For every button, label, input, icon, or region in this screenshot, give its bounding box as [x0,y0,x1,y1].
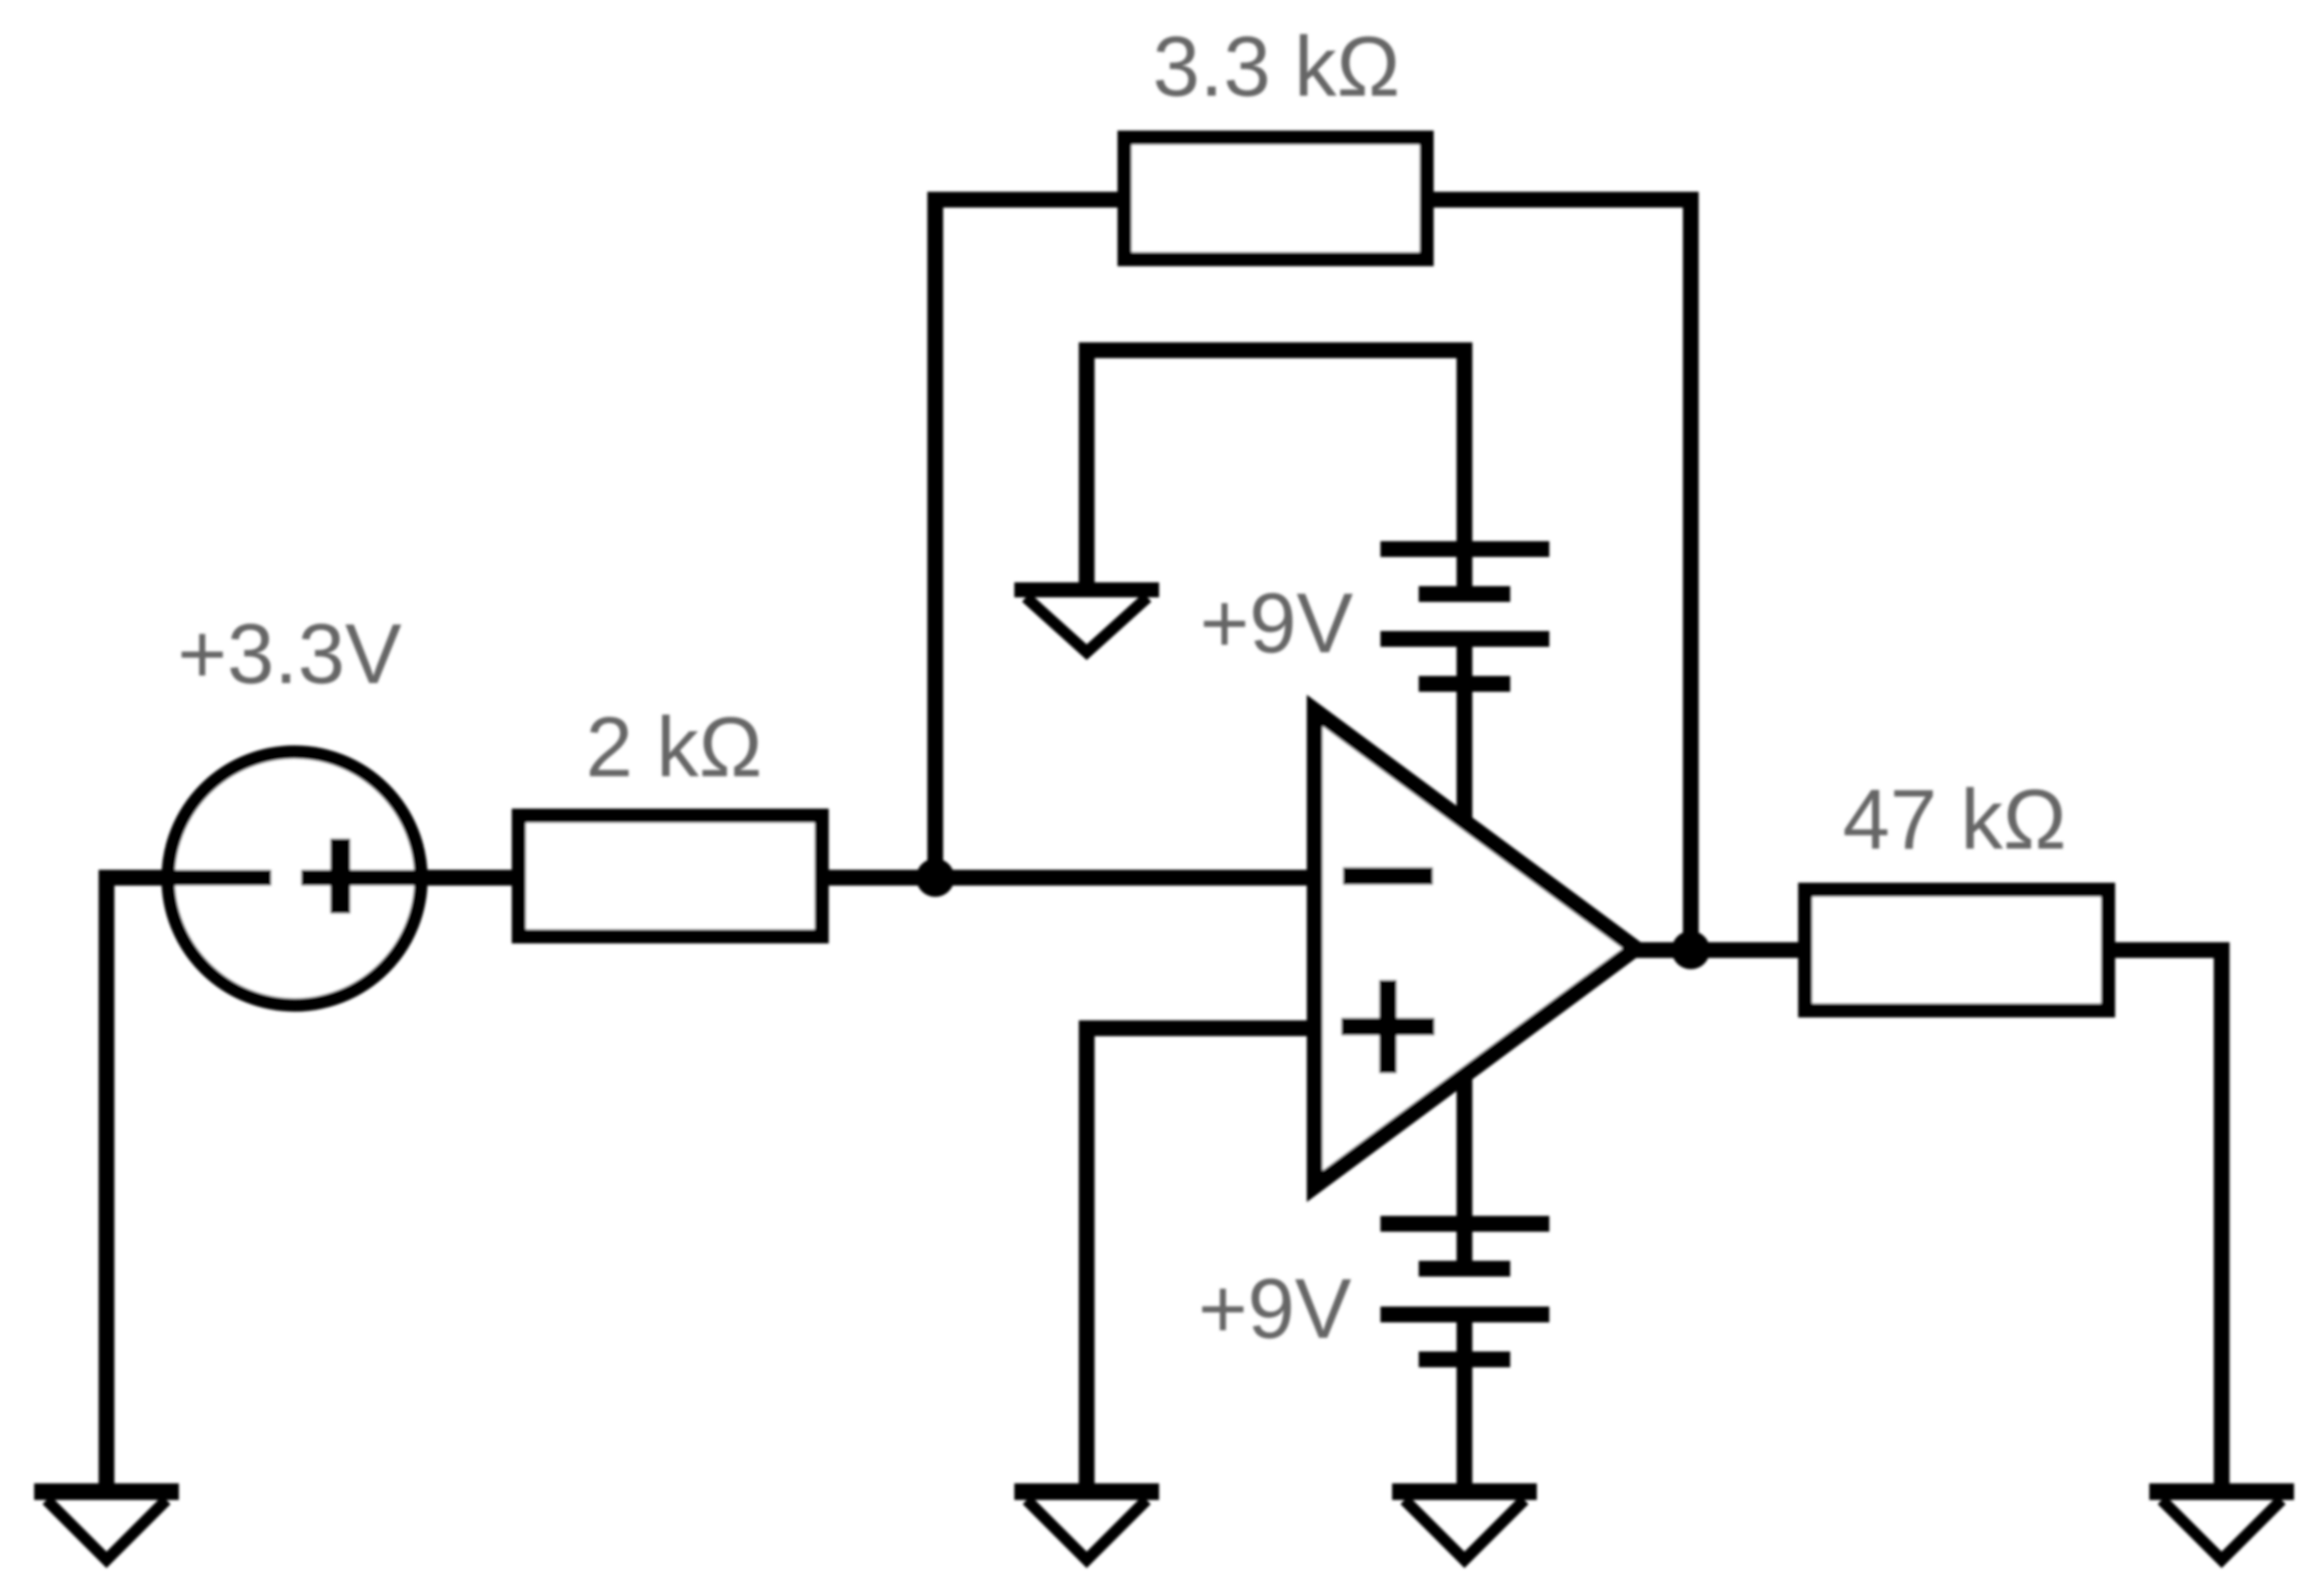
wire: source left lead down to ground [107,878,271,1492]
svg-text:47 kΩ: 47 kΩ [1842,772,2066,867]
minus sign (inverting input) [1343,868,1433,885]
op-amp U1 [1315,710,1636,1186]
svg-text:2 kΩ: 2 kΩ [586,700,762,794]
resistor R2 3.3 kOhm [1125,138,1427,260]
ground (non-inverting input) [1014,1492,1159,1560]
plus sign (source polarity) [330,839,350,913]
wire: op-amp output to resistor R3 [1629,943,1798,958]
resistor R3 47 kOhm [1806,890,2108,1011]
wire: inner loop (ground to battery B1) [1087,350,1464,594]
resistor R1 2 kOhm [519,816,822,937]
wire: resistor R3 to output ground [2115,950,2222,1492]
battery B1 +9V (top) [1380,549,1549,825]
wire: input node (source plus terminal to op-amp inverting input) [301,870,1315,886]
wire: feedback left (resistor R2 to input node) [935,200,1117,878]
voltage source V1 +3.3V [168,752,421,1005]
ground (output, bottom right) [2149,1492,2294,1560]
svg-text:+9V: +9V [1200,576,1353,671]
node: junction at output [1672,931,1710,969]
wire: non-inverting input down to ground [1087,1028,1315,1492]
battery B2 +9V (bottom) [1380,1076,1549,1492]
ground (battery B2) [1392,1492,1537,1560]
plus sign (non-inverting input) [1341,980,1435,1073]
ground (middle, battery B1 top) [1014,590,1159,652]
svg-text:+9V: +9V [1198,1261,1351,1356]
ground (source, bottom left) [34,1492,179,1560]
node: junction at inverting input [916,859,954,897]
wire: feedback right (resistor R2 to output node) [1434,200,1691,950]
svg-text:+3.3V: +3.3V [177,606,401,701]
svg-text:3.3 kΩ: 3.3 kΩ [1152,19,1400,114]
